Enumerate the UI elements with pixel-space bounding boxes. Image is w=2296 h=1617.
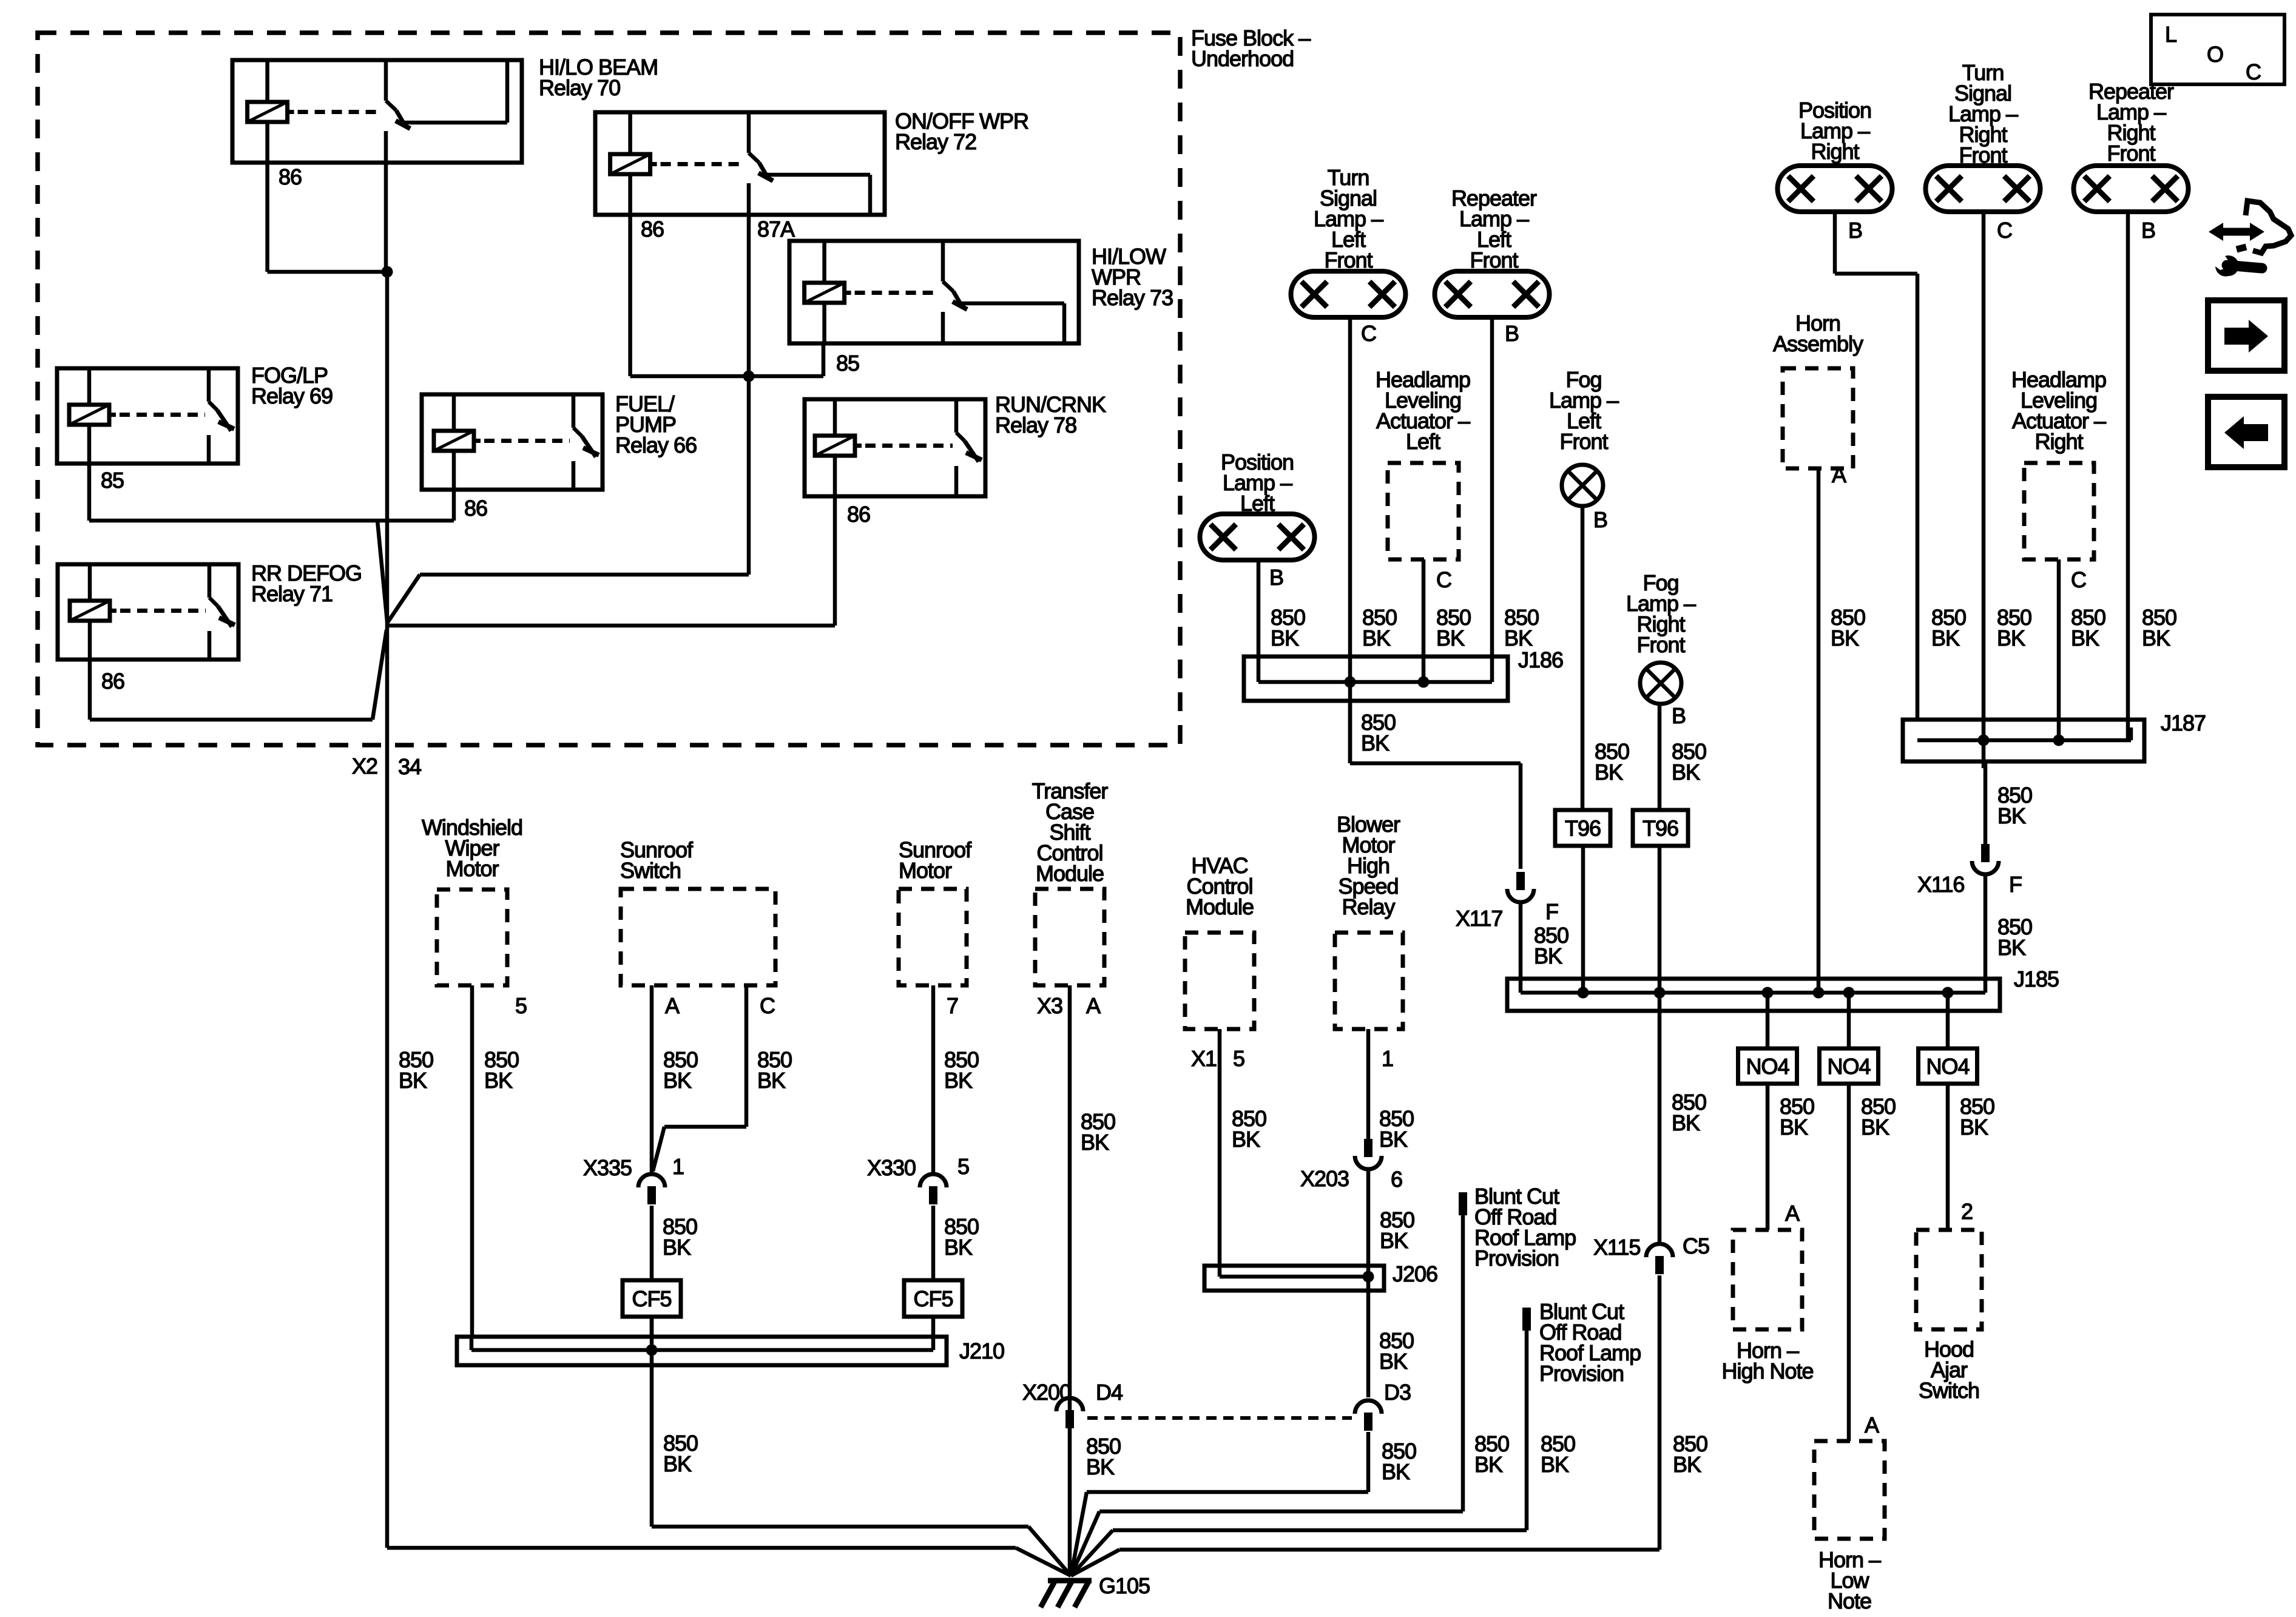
svg-text:B: B: [1593, 507, 1607, 532]
svg-text:J210: J210: [959, 1338, 1004, 1363]
svg-text:J206: J206: [1393, 1261, 1437, 1286]
svg-text:D3: D3: [1384, 1380, 1411, 1405]
svg-text:87A: 87A: [757, 217, 795, 241]
svg-text:86: 86: [101, 669, 124, 694]
svg-text:T96: T96: [1643, 816, 1678, 841]
svg-text:B: B: [1848, 218, 1862, 243]
svg-text:C5: C5: [1683, 1234, 1709, 1258]
svg-text:5: 5: [957, 1154, 969, 1179]
svg-text:HVACControlModule: HVACControlModule: [1186, 853, 1254, 919]
svg-text:B: B: [1505, 321, 1519, 346]
svg-text:CF5: CF5: [913, 1286, 953, 1311]
svg-text:1: 1: [672, 1154, 684, 1179]
svg-text:Fuse Block –Underhood: Fuse Block –Underhood: [1191, 25, 1311, 71]
svg-text:C: C: [760, 993, 775, 1018]
svg-text:NO4: NO4: [1926, 1054, 1969, 1079]
svg-text:1: 1: [1382, 1046, 1393, 1071]
svg-text:85: 85: [101, 468, 124, 493]
svg-text:J185: J185: [2014, 967, 2059, 991]
svg-text:A: A: [1785, 1201, 1800, 1226]
svg-text:85: 85: [836, 351, 859, 376]
svg-text:C: C: [1361, 321, 1376, 346]
svg-text:B: B: [1672, 703, 1686, 728]
svg-text:5: 5: [515, 993, 527, 1018]
svg-text:B: B: [1269, 565, 1283, 590]
svg-text:C: C: [1997, 218, 2012, 243]
svg-text:X3: X3: [1037, 993, 1062, 1018]
svg-text:X203: X203: [1300, 1166, 1349, 1191]
svg-text:FOG/LPRelay 69: FOG/LPRelay 69: [251, 363, 333, 408]
svg-text:2: 2: [1961, 1199, 1973, 1224]
svg-text:D4: D4: [1096, 1380, 1123, 1405]
svg-text:X116: X116: [1917, 872, 1964, 897]
svg-text:86: 86: [279, 164, 302, 189]
svg-text:5: 5: [1233, 1046, 1244, 1071]
svg-text:G105: G105: [1099, 1573, 1150, 1598]
svg-text:O: O: [2207, 42, 2223, 67]
svg-text:CF5: CF5: [632, 1286, 671, 1311]
svg-text:86: 86: [847, 502, 870, 527]
svg-text:C: C: [2246, 59, 2261, 84]
svg-text:34: 34: [398, 754, 421, 779]
svg-text:J186: J186: [1518, 647, 1563, 672]
svg-text:T96: T96: [1565, 816, 1601, 841]
svg-text:7: 7: [947, 993, 958, 1018]
svg-text:A: A: [1086, 993, 1101, 1018]
svg-text:J187: J187: [2161, 711, 2206, 735]
svg-text:86: 86: [641, 217, 664, 241]
svg-text:NO4: NO4: [1827, 1054, 1870, 1079]
svg-text:NO4: NO4: [1746, 1054, 1789, 1079]
svg-text:6: 6: [1391, 1167, 1402, 1192]
svg-text:C: C: [1436, 567, 1451, 592]
svg-text:X335: X335: [583, 1155, 632, 1180]
svg-text:C: C: [2071, 567, 2086, 592]
svg-text:A: A: [665, 993, 680, 1018]
svg-text:B: B: [2141, 218, 2155, 243]
svg-text:A: A: [1865, 1413, 1879, 1437]
svg-text:F: F: [2009, 872, 2022, 897]
svg-text:X115: X115: [1593, 1235, 1640, 1260]
svg-text:X1: X1: [1191, 1046, 1217, 1071]
svg-text:86: 86: [464, 496, 487, 521]
svg-text:F: F: [1545, 899, 1558, 924]
svg-text:X2: X2: [352, 754, 377, 778]
svg-text:X330: X330: [867, 1155, 916, 1180]
svg-text:A: A: [1832, 462, 1846, 487]
svg-text:L: L: [2165, 22, 2176, 47]
svg-text:X117: X117: [1456, 906, 1502, 931]
